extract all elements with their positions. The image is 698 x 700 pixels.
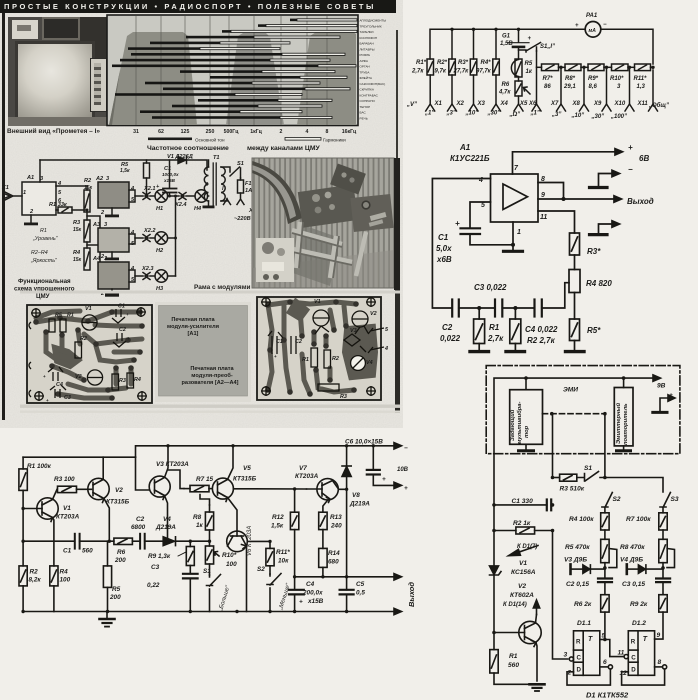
svg-text:СОПРАНО: СОПРАНО	[360, 99, 376, 103]
svg-text:8,2к: 8,2к	[29, 577, 42, 584]
transistor V5	[212, 478, 233, 499]
module frame photo	[250, 155, 402, 295]
wire pin3	[39, 160, 41, 182]
wire A4 outputs	[129, 270, 135, 276]
wire R10 to S1	[209, 564, 211, 575]
wire lamps H2 H3 return	[175, 196, 177, 276]
svg-text:„Ω”: „Ω”	[509, 112, 521, 118]
wire H2 return	[168, 237, 176, 239]
node X4	[492, 104, 501, 111]
PCB board A2-A4	[257, 297, 381, 400]
wire R2 ground	[514, 344, 516, 351]
svg-text:1к: 1к	[526, 69, 533, 75]
diode V4	[163, 537, 174, 546]
svg-text:КС156А: КС156А	[511, 569, 536, 576]
svg-text:5: 5	[602, 633, 606, 640]
svg-text:R4: R4	[73, 250, 81, 256]
left page edge rule	[2, 13, 5, 420]
capacitor C3 0.15	[656, 577, 670, 579]
svg-text:0,5: 0,5	[356, 590, 365, 597]
svg-text:11: 11	[540, 214, 547, 221]
resistor R2 8.2k	[19, 566, 27, 586]
wire C3 ground	[189, 578, 191, 611]
potentiometer R6 4.7k	[515, 81, 522, 96]
wire R12 to rail	[294, 530, 296, 590]
svg-text:R14: R14	[328, 550, 340, 557]
wire winding II bottom	[208, 201, 210, 205]
svg-text:С3: С3	[64, 395, 71, 401]
svg-text:R1: R1	[67, 313, 74, 319]
node X2	[448, 104, 457, 111]
wire pin8	[538, 183, 564, 200]
wire V7 emitter to R13	[323, 500, 328, 512]
wire pin4	[432, 179, 490, 309]
svg-text:X2.4: X2.4	[174, 202, 187, 208]
svg-text:9: 9	[541, 192, 545, 199]
svg-text:X4: X4	[500, 101, 509, 107]
flip-flop D1.2	[628, 631, 654, 676]
wire R6 to X5	[518, 96, 520, 104]
svg-text:8: 8	[326, 129, 329, 135]
diode V8	[346, 446, 348, 466]
svg-text:V7: V7	[299, 465, 307, 472]
wire node to pin11	[605, 640, 624, 657]
svg-text:ТРУБА: ТРУБА	[360, 70, 371, 74]
svg-text:R3 510к: R3 510к	[560, 486, 585, 493]
svg-text:+: +	[127, 336, 130, 341]
node X11	[649, 104, 658, 111]
svg-text:200: 200	[114, 557, 126, 564]
svg-text:„Больше”: „Больше”	[218, 584, 232, 612]
svg-text:С2: С2	[295, 339, 302, 345]
svg-text:ФЛЕЙТА: ФЛЕЙТА	[360, 76, 373, 80]
svg-text:А2: А2	[95, 176, 104, 182]
svg-text:„Меньше”: „Меньше”	[278, 582, 292, 612]
svg-text:500Гц: 500Гц	[224, 129, 240, 135]
svg-text:X7: X7	[550, 101, 559, 107]
svg-text:6: 6	[603, 659, 607, 666]
wire X9 drop	[606, 67, 608, 104]
switch S1	[207, 575, 221, 587]
wire R8 bottom	[209, 530, 211, 546]
caption panel	[155, 302, 251, 402]
capacitor C1 outline	[268, 331, 283, 354]
wire R3 drop	[473, 29, 475, 59]
wire V6 to R11	[247, 540, 270, 542]
svg-text:X2.2: X2.2	[143, 228, 156, 234]
svg-text:„3”: „3”	[551, 112, 561, 118]
junction dots	[450, 28, 453, 31]
svg-text:R2: R2	[332, 356, 339, 362]
wire 9V rail	[494, 378, 653, 505]
wire pin11 to R3	[538, 211, 575, 233]
svg-text:Печатная плата: Печатная плата	[190, 366, 234, 372]
wire C1 right	[551, 504, 552, 506]
transistor V7	[317, 479, 338, 500]
svg-text:С2: С2	[442, 323, 453, 332]
resistor R12 1.5k	[290, 512, 298, 529]
PCB layouts strip	[18, 290, 402, 416]
svg-text:Основной тон: Основной тон	[195, 137, 225, 143]
resistor R7 86	[542, 64, 559, 71]
ground A4	[105, 294, 119, 297]
EMI metronome schematic	[478, 360, 698, 700]
wire R11 to corner	[651, 66, 654, 68]
svg-text:+: +	[274, 354, 277, 359]
wire V2 collector arrow up	[536, 601, 538, 615]
svg-text:R2: R2	[84, 178, 92, 184]
wire V2 emitter	[536, 643, 537, 682]
svg-text:R5: R5	[525, 61, 533, 67]
svg-text:R4 100к: R4 100к	[569, 516, 594, 523]
svg-text:КОНТРАБАС: КОНТРАБАС	[360, 93, 379, 97]
wire A3 outputs	[129, 234, 135, 238]
svg-text:+: +	[43, 374, 46, 379]
svg-text:29,1: 29,1	[563, 84, 576, 90]
ground R2	[506, 350, 525, 353]
svg-text:+: +	[46, 398, 49, 403]
svg-text:V4: V4	[163, 516, 171, 523]
svg-text:5,0х: 5,0х	[436, 244, 452, 253]
copper traces	[268, 302, 356, 394]
svg-text:R3*: R3*	[587, 247, 601, 256]
wire block1 bottom ground	[525, 444, 527, 449]
svg-text:КСИЛОФОН: КСИЛОФОН	[360, 36, 378, 40]
svg-text:С3: С3	[151, 564, 160, 571]
svg-text:С3 0,022: С3 0,022	[474, 283, 507, 292]
wire R2-R3 junction	[86, 212, 88, 220]
page gutter shadow	[396, 30, 398, 158]
svg-text:R10*: R10*	[610, 76, 624, 82]
switch S1	[577, 472, 599, 482]
wire winding I top to S1	[221, 167, 230, 172]
svg-text:X8: X8	[572, 101, 581, 107]
svg-text:4,7к: 4,7к	[498, 90, 511, 96]
transistor V3	[149, 476, 170, 497]
svg-text:12: 12	[620, 670, 628, 677]
resistor R13 240	[319, 512, 327, 529]
transistor V6	[227, 531, 248, 552]
wire node drop left	[552, 414, 554, 478]
svg-text:86: 86	[544, 84, 551, 90]
svg-text:100: 100	[60, 577, 71, 584]
svg-text:КТ315Б: КТ315Б	[233, 476, 257, 483]
resistor R4 100	[50, 566, 58, 586]
capacitor C5	[340, 589, 354, 591]
svg-text:ОРГАН: ОРГАН	[360, 65, 370, 69]
ground pin1	[504, 250, 523, 253]
module A4	[98, 262, 129, 289]
svg-text:БАРАБАН: БАРАБАН	[360, 42, 374, 46]
node X2.2	[136, 235, 155, 242]
svg-text:х15В: х15В	[163, 178, 176, 183]
svg-text:16кГц: 16кГц	[342, 129, 357, 135]
capacitor C4	[289, 589, 304, 591]
svg-text:R8 470к: R8 470к	[620, 544, 645, 551]
svg-text:V1 Д226Д: V1 Д226Д	[167, 154, 193, 160]
svg-text:С1: С1	[276, 339, 283, 345]
TV caption	[7, 128, 117, 135]
TV photo	[8, 17, 107, 126]
potentiometer R10 100	[205, 546, 213, 564]
lamp H4	[195, 190, 208, 203]
wire R7-R8	[662, 530, 664, 539]
resistor R5 1.5k	[146, 160, 148, 163]
zener V1 KS156A	[490, 566, 499, 575]
pin2 feedback loop D1.1	[567, 669, 610, 685]
transistor V1	[37, 498, 58, 519]
capacitor C2 outline	[113, 333, 126, 347]
svg-text:1,5В: 1,5В	[500, 41, 513, 47]
wire PA1 to right corner	[601, 29, 653, 64]
wire V4 to R8 junction	[176, 540, 210, 542]
node X1	[426, 104, 435, 111]
svg-text:R3 100: R3 100	[54, 476, 75, 483]
svg-text:V8: V8	[352, 492, 360, 499]
svg-text:К1УС221Б: К1УС221Б	[450, 154, 490, 163]
svg-text:3: 3	[617, 84, 621, 90]
pin11 bubble	[624, 655, 628, 659]
wire X11 drop	[652, 70, 654, 104]
svg-text:9: 9	[657, 632, 661, 639]
svg-text:R9 1,3к: R9 1,3к	[148, 553, 171, 560]
wire winding I bottom terminal	[221, 199, 227, 202]
svg-text:Эмиттерный: Эмиттерный	[615, 403, 622, 444]
svg-text:7: 7	[514, 165, 519, 172]
svg-text:„3”: „3”	[446, 111, 456, 117]
resistor R5 1k	[515, 59, 522, 77]
svg-text:X1: X1	[1, 185, 9, 191]
resistor R6 2k	[601, 595, 609, 612]
svg-text:КТ315Б: КТ315Б	[106, 499, 130, 506]
wire R13-R14	[322, 530, 324, 549]
resistor R11 1.3	[635, 64, 651, 71]
svg-text:„1”: „1”	[530, 111, 540, 117]
wire A2 outputs	[129, 190, 135, 196]
svg-text:3: 3	[104, 222, 108, 228]
node X6	[532, 104, 541, 111]
wire block1 top	[525, 378, 527, 390]
wire node drop right	[604, 414, 606, 478]
svg-text:R7*: R7*	[543, 76, 554, 82]
svg-text:х15В: х15В	[307, 598, 324, 605]
pin6 bubble	[608, 665, 612, 669]
junction dots	[524, 376, 528, 380]
svg-text:27,7к: 27,7к	[453, 69, 470, 75]
wire V8 down	[346, 478, 348, 590]
wire G1 to R5	[518, 48, 520, 59]
capacitor C3	[494, 300, 496, 317]
svg-text:R2 2,7к: R2 2,7к	[527, 336, 556, 345]
svg-text:4: 4	[306, 129, 309, 135]
wire pin9 output	[538, 198, 614, 200]
resistor R4 820	[569, 270, 580, 293]
wire V1 to R1	[493, 575, 495, 650]
wire R1 to X1	[429, 75, 431, 104]
svg-text:мультивибра-: мультивибра-	[516, 401, 523, 444]
svg-text:R1: R1	[489, 323, 500, 332]
transistor V1 outline	[313, 310, 329, 326]
node X2.1	[136, 193, 155, 200]
svg-text:15к: 15к	[73, 257, 82, 263]
wire pin4 to R2 column	[56, 185, 87, 187]
svg-text:R3: R3	[340, 394, 347, 400]
resistor R9 8.6	[588, 64, 604, 71]
dash-dot enclosure	[486, 366, 680, 454]
svg-text:Гармоники: Гармоники	[323, 138, 346, 143]
resistor R2 2.7k	[510, 319, 521, 344]
svg-text:X9: X9	[593, 101, 602, 107]
wire R3 to X3	[473, 75, 475, 104]
svg-text:62: 62	[158, 129, 164, 135]
functional CMU schematic	[0, 148, 262, 304]
edge hooks	[29, 322, 31, 397]
wire R1 ground	[478, 344, 480, 351]
svg-text:„10”: „10”	[571, 113, 585, 119]
wire pin7 supply	[513, 152, 616, 174]
terminal minus with ground	[599, 174, 613, 187]
switch S2	[267, 574, 281, 586]
terminal plus ground	[660, 398, 668, 411]
svg-text:R4 820: R4 820	[586, 279, 612, 288]
svg-text:„Яркость”: „Яркость”	[30, 258, 57, 264]
svg-text:R3*: R3*	[458, 60, 469, 66]
svg-text:R11*: R11*	[634, 76, 648, 82]
wire pin1 input	[14, 195, 22, 197]
wire top bus	[430, 29, 585, 59]
svg-text:1: 1	[23, 190, 26, 196]
node X2.4	[179, 193, 195, 200]
node X9	[602, 104, 611, 111]
svg-text:R7 15: R7 15	[196, 476, 213, 483]
svg-text:6800: 6800	[131, 524, 146, 531]
svg-text:D1.2: D1.2	[632, 620, 646, 627]
svg-text:R3: R3	[119, 378, 126, 384]
wire H3 return	[168, 275, 176, 277]
svg-text:R1: R1	[40, 228, 47, 234]
wire R5 to ground	[574, 341, 576, 351]
svg-text:„Уровень”: „Уровень”	[32, 236, 58, 242]
ground A2	[105, 215, 119, 218]
resistor R1 33k	[56, 209, 58, 211]
svg-text:2: 2	[280, 129, 283, 135]
wire R5 to node	[604, 563, 606, 579]
wire R4-R5	[604, 530, 606, 539]
svg-text:модуля-усилителя: модуля-усилителя	[167, 324, 219, 330]
svg-text:5: 5	[385, 327, 389, 333]
flip-flop D1.1	[574, 631, 600, 676]
svg-text:+: +	[382, 476, 386, 483]
wire to module A4	[87, 245, 100, 262]
svg-text:„Общ”: „Общ”	[648, 102, 669, 109]
junction dots	[562, 197, 566, 201]
svg-text:−: −	[404, 445, 408, 452]
wire H1 to bus node	[168, 195, 179, 197]
resistor R9 2k	[659, 595, 667, 612]
svg-text:S2: S2	[257, 566, 265, 573]
svg-text:3: 3	[564, 652, 568, 659]
svg-text:2,7к: 2,7к	[487, 334, 504, 343]
svg-text:R2*: R2*	[437, 60, 448, 66]
svg-text:0,022: 0,022	[440, 334, 461, 343]
svg-text:1,3: 1,3	[637, 84, 646, 90]
wire upper rail	[136, 446, 395, 457]
wire A3 ground	[111, 252, 113, 257]
wire R1 to V1 base	[22, 490, 24, 566]
svg-text:R13: R13	[330, 514, 342, 521]
wire C4 ground	[294, 594, 296, 611]
svg-text:R4*: R4*	[481, 60, 492, 66]
resistor R1 560	[490, 650, 498, 673]
wire X8 drop	[583, 67, 585, 104]
wire V3 emitter down	[165, 496, 168, 542]
svg-text:Д219А: Д219А	[155, 524, 176, 531]
node X10	[625, 104, 634, 111]
svg-text:6В: 6В	[639, 154, 649, 163]
node X8	[580, 104, 589, 111]
contact bar V4 anode	[625, 564, 628, 574]
svg-text:Выход: Выход	[627, 197, 654, 206]
wire V5 emitter to V6	[228, 498, 238, 532]
svg-text:+: +	[299, 599, 303, 606]
svg-text:РОЯЛЬ: РОЯЛЬ	[360, 53, 371, 57]
svg-text:ТАРЕЛКИ: ТАРЕЛКИ	[360, 30, 374, 34]
wire R3 to V2	[77, 488, 92, 490]
diode V1	[178, 157, 186, 164]
capacitor C2 outline	[291, 336, 296, 354]
svg-text:II: II	[205, 182, 209, 188]
wire C4 to R4 junction	[542, 283, 569, 308]
svg-text:X5: X5	[519, 101, 528, 107]
capacitor C3 0.22	[183, 573, 198, 575]
wire C1 left	[494, 504, 547, 506]
switch S1	[519, 43, 541, 53]
capacitor C4	[533, 300, 535, 317]
svg-text:X11: X11	[637, 101, 649, 107]
wire S1 to right branch	[600, 478, 663, 493]
svg-text:10В: 10В	[397, 467, 409, 473]
wire R4 ground	[53, 586, 55, 612]
svg-text:5: 5	[58, 190, 62, 196]
PCB board A1	[27, 305, 152, 403]
svg-text:S1: S1	[237, 161, 244, 167]
svg-text:1к: 1к	[196, 522, 204, 529]
svg-text:D1 К1ТК552: D1 К1ТК552	[586, 691, 629, 700]
svg-text:ТЕНОР: ТЕНОР	[360, 105, 371, 109]
resistor R1 100k	[19, 469, 27, 491]
svg-text:V6 КТ203А: V6 КТ203А	[247, 526, 253, 556]
svg-text:9В: 9В	[657, 383, 666, 390]
svg-text:X10: X10	[614, 101, 626, 107]
potentiometer R9 1.3k	[186, 547, 194, 566]
resistor R7 100k	[659, 513, 667, 530]
svg-text:С2 0,15: С2 0,15	[566, 581, 589, 588]
svg-text:680: 680	[328, 559, 339, 566]
svg-text:X3: X3	[477, 101, 486, 107]
wire R11 to S2	[269, 566, 271, 574]
wire block2 top	[623, 378, 625, 387]
svg-text:СКРИПКА: СКРИПКА	[360, 88, 375, 92]
wire R6 to C2	[132, 540, 140, 542]
svg-text:КТ203А: КТ203А	[295, 473, 319, 480]
svg-text:V2: V2	[370, 311, 377, 317]
svg-text:R9*: R9*	[588, 76, 599, 82]
ohmmeter/voltmeter schematic	[406, 0, 698, 135]
svg-text:Функциональная: Функциональная	[18, 278, 71, 285]
capacitor C2	[451, 300, 453, 317]
resistor R4 97.7k	[493, 59, 500, 75]
svg-text:мА: мА	[589, 28, 597, 34]
